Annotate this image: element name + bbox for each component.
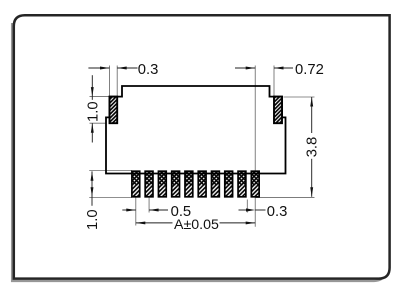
connector body outline xyxy=(106,86,286,174)
svg-text:A±0.05: A±0.05 xyxy=(174,217,219,233)
extension line: left tab left edge vertical (for 0.3 top) xyxy=(109,66,111,97)
extension line: 0.3 bottom-right left boundary vertical xyxy=(246,200,248,213)
dimension 0.72 (top-right): line and arrows xyxy=(235,67,293,70)
pin 2 xyxy=(145,171,153,197)
extension line: pin bottom horizontal (for 1.0 bottom-left) xyxy=(89,197,132,199)
extension line: tab top horizontal (for 1.0 top-left) xyxy=(90,96,110,98)
dimension 0.5 (bottom pitch): line and arrows xyxy=(122,209,168,212)
dimension A±0.05 (bottom overall): line and arrows xyxy=(136,221,255,224)
svg-text:1.0: 1.0 xyxy=(85,209,101,230)
extension line: pin2 center vertical (for 0.5) xyxy=(148,197,150,213)
extension line: pin top horizontal (for 1.0 bottom-left) xyxy=(89,170,132,172)
extension line: pin10 center vertical (through body, for 0.72 / 0.3 / A dims) xyxy=(254,66,256,227)
extension line: pin bottom right horizontal (for 3.8) xyxy=(255,197,314,199)
frame shadow xyxy=(12,23,384,281)
pin 5 xyxy=(185,171,193,197)
dimension 0.3 (bottom-right): line and arrows xyxy=(239,208,266,211)
pin 1 xyxy=(132,171,140,197)
dimension 1.0 (bottom-left vertical): line and arrows xyxy=(91,171,94,206)
dimension 1.0 (top-left vertical): line and arrows xyxy=(91,75,94,142)
svg-text:0.72: 0.72 xyxy=(295,62,324,78)
extension line: tab top right horizontal (for 3.8) xyxy=(284,96,315,98)
extension line: pin1 center vertical (for 0.5 / A dims) xyxy=(135,197,137,226)
pin 7 xyxy=(212,171,220,197)
dimension 0.3 (top-left): line and arrows xyxy=(88,67,137,70)
pin 10 xyxy=(251,171,259,197)
pin 9 xyxy=(238,171,246,197)
pin 3 xyxy=(158,171,166,197)
pin 6 xyxy=(198,171,206,197)
extension line: tab bottom horizontal (for 1.0 top-left) xyxy=(90,122,107,124)
pin 8 xyxy=(225,171,233,197)
svg-text:3.8: 3.8 xyxy=(304,137,320,158)
svg-text:0.3: 0.3 xyxy=(138,62,159,78)
right mounting tab (hatched) xyxy=(274,97,282,124)
svg-text:1.0: 1.0 xyxy=(86,101,102,122)
dimension 3.8 (right vertical): line and arrows xyxy=(310,97,313,197)
svg-text:0.3: 0.3 xyxy=(267,204,288,220)
extension line: right tab left edge vertical (for 0.72) xyxy=(273,66,275,97)
pin 4 xyxy=(172,171,180,197)
left mounting tab (hatched) xyxy=(110,97,118,124)
extension line: left tab right edge vertical (for 0.3 top) xyxy=(116,66,118,97)
